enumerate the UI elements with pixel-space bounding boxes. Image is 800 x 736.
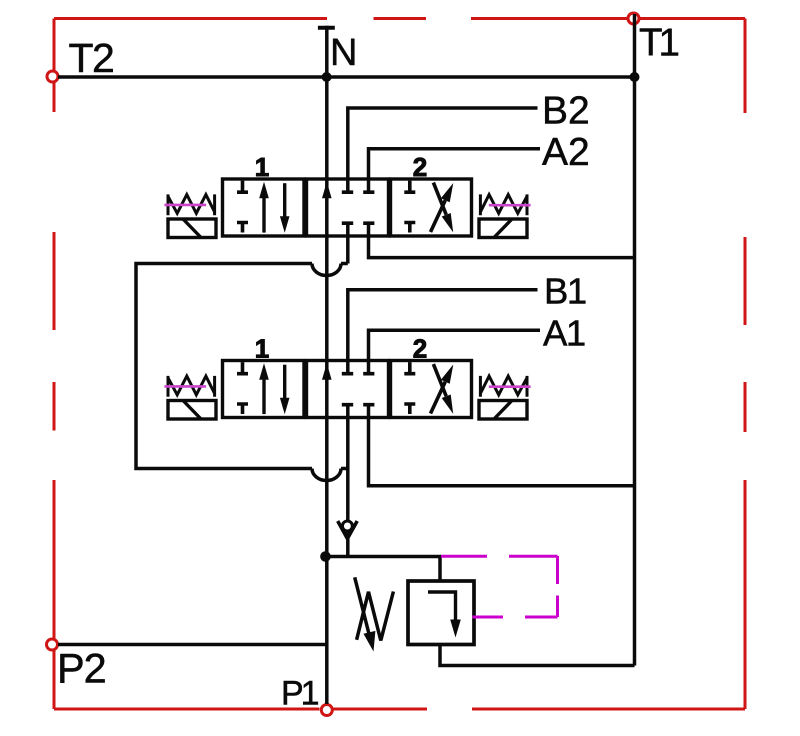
red dashed enclosure border right (744, 19, 747, 710)
relief valve RV1 body (408, 581, 474, 645)
check valve CV1 ball (342, 521, 352, 531)
wire P2 (58, 643, 327, 647)
wire valve1 bottom-left port (346, 225, 350, 264)
wire valve1 bottom-right port to T1 (369, 225, 635, 258)
wire valve2 bottom-left port to P gallery (346, 407, 350, 557)
red dashed enclosure border bottom (54, 708, 745, 711)
wire P gallery to relief valve (326, 557, 441, 582)
wire A1 (369, 330, 541, 372)
svg-text:A1: A1 (543, 313, 585, 354)
relief valve RV1 adjustment arrow (355, 577, 369, 634)
wire T1 vertical (633, 14, 637, 666)
port ring T2 (47, 71, 58, 82)
port ring P2 (47, 639, 58, 650)
relief valve RV1 adjustable spring (357, 592, 394, 641)
wire N vertical (325, 26, 329, 704)
svg-text:T1: T1 (639, 22, 679, 65)
wire A2 (369, 149, 541, 191)
junction node P gallery (320, 551, 331, 562)
svg-text:P1: P1 (281, 675, 319, 713)
wire B1 (348, 290, 538, 372)
wire bypass from valve1 with hop over N (136, 264, 348, 481)
svg-text:N: N (330, 32, 357, 74)
check valve CV1 seat (338, 521, 358, 539)
port ring T1 (628, 13, 639, 24)
svg-text:B1: B1 (544, 271, 586, 312)
svg-text:P2: P2 (57, 645, 106, 692)
svg-text:B2: B2 (542, 90, 590, 133)
junction node T1/T2 (630, 72, 640, 82)
wire relief valve outlet to T1 (440, 645, 635, 666)
wire T2 rail (58, 75, 635, 79)
valve V1 (upper directional valve) (164, 152, 530, 238)
wire B2 (348, 108, 538, 191)
valve V2 (lower directional valve) (164, 334, 530, 420)
port ring P1 (321, 705, 332, 716)
pilot line (magenta dashed) (441, 556, 558, 617)
svg-text:A2: A2 (542, 131, 590, 174)
N line top cap (318, 26, 335, 30)
svg-text:T2: T2 (69, 35, 114, 81)
relief valve RV1 internal flow arrow (428, 592, 456, 620)
junction node N/T2 (322, 72, 332, 82)
red dashed enclosure border left (53, 19, 56, 710)
wire valve2 bottom-right port to T1 (369, 407, 635, 486)
